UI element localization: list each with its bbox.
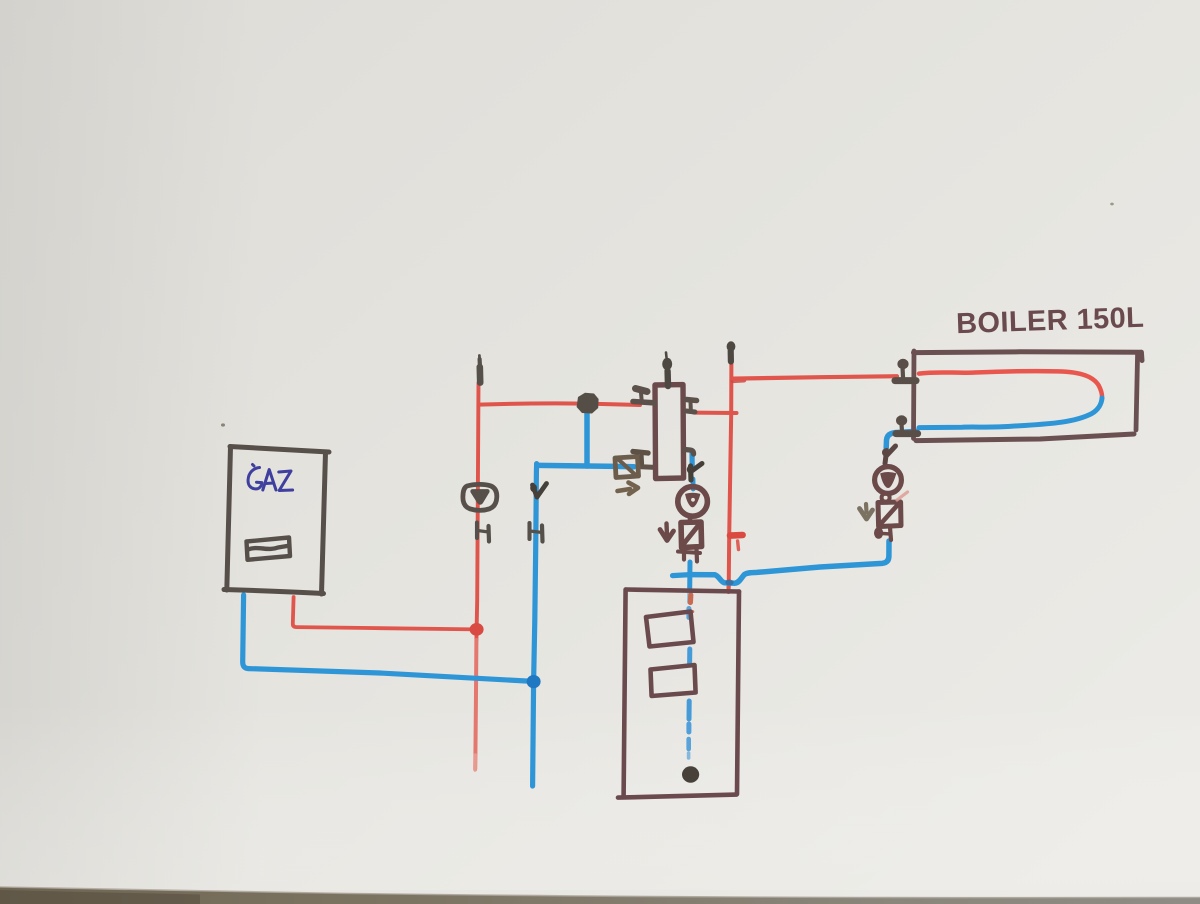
radiator symbol 2 inside box [651,665,696,696]
pump P3 (boiler loading) [875,467,902,494]
wire: red hot-water supply riser (left), upper part [476,383,478,640]
pump P1 on left red riser [463,484,497,510]
union fitting at boiler hot inlet [895,359,916,381]
gas boiler cabinet "GAZ" [224,447,329,595]
union valve H on blue left riser [530,523,543,542]
air vent on right red riser [727,341,736,361]
flow arrow right, below CV1 [618,483,639,495]
union above CV1 [633,452,648,464]
stem between P2 and CV2 [688,517,693,523]
label: BOILER 150L [956,302,1145,341]
wire: red pipe from GAZ boiler down and right to red junction [293,597,476,629]
node: black sensor bulb dot at end of dashed line [682,766,699,782]
node: dark overlap where blue hops under red riser [725,580,733,586]
wire: dashed blue sensor line inside radiator box [689,609,690,759]
wire: blue left riser down to bottom [533,464,537,786]
wire: blue bottom horizontal with hop over red riser, to boiler pump branch [690,541,889,583]
GAZ cabinet display slot [247,538,291,560]
wire: blue coil inside boiler [919,398,1102,428]
union fitting, separator right-top outlet [687,400,697,413]
faint pink smudge near CV3 [897,492,908,500]
wire: dark link check valve to separator wall [639,464,656,470]
svg-text:BOILER 150L: BOILER 150L [956,302,1145,341]
label: GAZ [248,465,293,491]
small union circle below P3 [882,494,890,502]
union H below CV2 [678,547,700,562]
node: blue tee junction dot [527,675,541,688]
check valve CV1 on blue header [615,457,639,478]
wire: blue drop from black node to low-temp header [584,408,590,466]
union fitting at boiler cold outlet [896,415,918,433]
black distribution node on red header [577,393,599,414]
wire: red coil inside boiler [919,371,1102,398]
wire: red segment entering radiator box [727,583,731,592]
ink smudge at boiler-branch tee [733,378,744,383]
paper speck [221,423,225,426]
wire: red supply to boiler coil [733,376,897,378]
wire: blue pipe from GAZ boiler down and right to blue junction [243,595,533,681]
radiator symbol 1 inside box [646,612,694,647]
wire: red link separator right port to right riser [694,411,737,415]
wire: red riser (left), lower faded part [475,640,476,770]
wire: blue drop from separator right port [692,452,693,489]
pump P2 (heating circuit) [678,487,708,517]
table surface at bottom edge of paper [0,887,1200,904]
air vent on left red riser [477,356,482,383]
wire: blue horizontal header to check valve and separator [539,465,634,466]
union valve H on red riser [477,523,489,542]
hydraulic separator vessel [655,385,684,479]
check valve CV2 [681,522,702,548]
wire: blue below check valve CV2 into bottom tee [687,562,693,602]
air vent on separator top [662,353,672,387]
union H below CV3 [874,527,891,540]
radiator distribution box [618,590,739,798]
wire: blue return from boiler down to pump P3 [886,431,917,448]
paper speck [1110,203,1114,206]
boiler tank 150L [914,351,1143,441]
flow arrow down, left of CV2 [660,524,674,541]
red pen mark over dashed line below box top [688,595,694,603]
wire: red right riser (separator to radiator box) [729,361,732,588]
check valve CV3 [878,502,901,527]
wire: blue bottom tee stub to the left [673,575,691,576]
wire: red horizontal from left riser to hydraulic separator [479,403,640,405]
shut-off valve above pump P3 [882,446,896,464]
node: red tee junction dot [470,623,484,636]
shut-off valve on separator bottom outlet [687,464,702,481]
red pen tick over dashed line [687,610,693,614]
shut-off valve on blue left riser [530,484,546,498]
union fitting, separator left-top inlet [633,389,654,403]
wire: red stub tee on right riser [730,535,743,550]
flow arrow down, left of CV3 [860,504,873,519]
separator right-bottom outlet elbow [685,450,694,455]
